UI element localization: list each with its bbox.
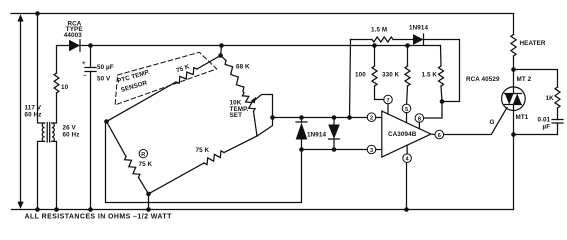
resistor 1K	[555, 87, 560, 108]
svg-text:1N914: 1N914	[307, 132, 326, 139]
node MT1	[511, 132, 516, 137]
wire output to gate	[444, 108, 507, 135]
diode D1 RCA 44003	[64, 21, 83, 52]
resistor R 75K left leg	[107, 122, 127, 157]
svg-text:2: 2	[370, 116, 373, 122]
pin 4	[403, 145, 412, 162]
node bridge top tap	[219, 43, 224, 48]
svg-text:MT1: MT1	[516, 114, 529, 121]
svg-text:G: G	[490, 119, 495, 126]
resistor HEATER	[511, 35, 516, 57]
wire bridge top stub	[220, 46, 223, 56]
svg-text:+: +	[82, 60, 86, 67]
wire diode to node	[80, 45, 91, 47]
wire MT1 to rail	[513, 135, 515, 210]
wire transformer primary top lead	[38, 14, 45, 124]
wire feedback top left	[351, 39, 373, 41]
svg-text:10: 10	[61, 84, 69, 91]
pin 5	[402, 104, 411, 123]
pin 6	[431, 130, 444, 139]
svg-text:75 K: 75 K	[196, 147, 210, 154]
svg-text:6: 6	[438, 133, 441, 139]
svg-text:330 K: 330 K	[382, 72, 400, 79]
svg-text:3: 3	[370, 148, 373, 154]
svg-text:117 V: 117 V	[25, 105, 42, 112]
wire feedback right	[424, 40, 460, 102]
wire node to pin8	[424, 102, 442, 119]
resistor 330K	[405, 43, 410, 48]
transformer T1	[42, 123, 79, 143]
PTC sensor dashed enclosure	[115, 52, 217, 105]
wire transformer secondary top lead	[52, 93, 57, 123]
wire 100 to pin7	[375, 86, 384, 100]
svg-text:RCA 40529: RCA 40529	[466, 76, 500, 83]
wire feedback left vertical	[350, 40, 351, 118]
pin 8	[415, 114, 424, 129]
wire pin3 line	[302, 149, 368, 151]
wire MT2 to 1K	[514, 70, 558, 88]
svg-text:26 V: 26 V	[63, 125, 77, 132]
triac Q1 RCA 40529	[466, 70, 532, 135]
resistor 10	[54, 73, 59, 93]
wire pot bottom join	[254, 112, 258, 137]
svg-text:HEATER: HEATER	[520, 40, 546, 47]
node primary to bottom rail	[35, 207, 40, 212]
node diode d3 top	[332, 115, 337, 120]
node cap to bottom rail	[88, 207, 93, 212]
resistor 100	[372, 43, 377, 48]
svg-text:ALL RESISTANCES IN OHMS –1/2 W: ALL RESISTANCES IN OHMS –1/2 WATT	[25, 214, 173, 221]
wire heater drop	[513, 14, 515, 35]
node output collector	[440, 99, 445, 104]
node pot wiper	[270, 115, 275, 120]
svg-text:75 K: 75 K	[139, 161, 153, 168]
svg-text:MT 2: MT 2	[517, 76, 532, 83]
svg-text:1N914: 1N914	[409, 25, 428, 32]
svg-text:50 V: 50 V	[97, 76, 111, 83]
wire bottom rail	[12, 209, 514, 211]
wire transformer primary bottom lead	[38, 141, 45, 209]
resistor 1.5K	[440, 46, 443, 67]
wire pin4 to rail	[406, 163, 408, 210]
wire pin2 line	[273, 117, 368, 119]
resistor 75K bottom right leg	[224, 136, 257, 153]
svg-text:44003: 44003	[64, 32, 82, 39]
diode D2 1N914 up	[296, 118, 327, 150]
wire supply line	[91, 45, 441, 47]
pin 7	[384, 95, 393, 114]
node diode d2 top	[299, 115, 304, 120]
wire PTC to left node	[107, 82, 177, 122]
svg-text:0.01: 0.01	[538, 117, 551, 124]
svg-text:7: 7	[386, 98, 389, 104]
node rectifier output	[88, 43, 93, 48]
source 117V 60Hz line arrows	[17, 14, 41, 209]
wire pin3 tie to bridge left node	[106, 122, 302, 203]
resistor 68K	[221, 56, 226, 61]
node d2 bottom	[299, 147, 304, 152]
node primary junction on top rail	[35, 11, 40, 16]
wire cap to MT1	[514, 134, 558, 136]
svg-text:60 Hz: 60 Hz	[25, 112, 42, 119]
node bridge top	[218, 53, 223, 58]
wire top rail	[11, 13, 514, 15]
resistor PTC 75K	[197, 56, 221, 70]
svg-text:1.5 K: 1.5 K	[422, 72, 438, 79]
wire transformer secondary bottom lead	[52, 141, 57, 209]
op-amp U1 CA3094B	[382, 111, 431, 157]
svg-text:SET: SET	[230, 112, 243, 119]
resistor 1.5M	[372, 37, 393, 42]
svg-text:50 µF: 50 µF	[97, 64, 114, 71]
node bridge left	[104, 119, 109, 124]
wire 1.5M to diode	[393, 39, 413, 41]
svg-text:68 K: 68 K	[236, 64, 250, 71]
wire 330K to pin5	[406, 86, 409, 104]
diode D4 1N914	[409, 25, 428, 45]
svg-text:8: 8	[418, 116, 421, 122]
node MT2	[511, 67, 516, 72]
node feedback tap	[347, 115, 352, 120]
svg-text:1K: 1K	[546, 95, 555, 102]
svg-text:R: R	[141, 152, 145, 158]
pin 2	[367, 113, 382, 122]
wire 10 ohm up to diode	[57, 46, 70, 74]
svg-text:100: 100	[355, 72, 366, 79]
svg-text:–: –	[83, 72, 87, 79]
svg-text:1.5 M: 1.5 M	[371, 27, 387, 34]
diode D3 1N914 down	[328, 118, 340, 150]
svg-text:CA3094B: CA3094B	[388, 131, 417, 138]
capacitor C1 50uF 50V	[82, 46, 114, 210]
svg-text:60 Hz: 60 Hz	[63, 132, 80, 139]
node d3 bottom	[332, 147, 337, 152]
potentiometer 10K TEMP SET	[230, 91, 273, 119]
node bridge bottom	[146, 192, 151, 197]
wire bottom node to rail	[148, 194, 150, 210]
pin 3	[367, 145, 382, 154]
svg-text:5: 5	[405, 107, 408, 113]
capacitor C2 0.01uF	[538, 117, 564, 135]
node secondary to bottom rail	[54, 207, 59, 212]
svg-text:µF: µF	[543, 124, 551, 131]
